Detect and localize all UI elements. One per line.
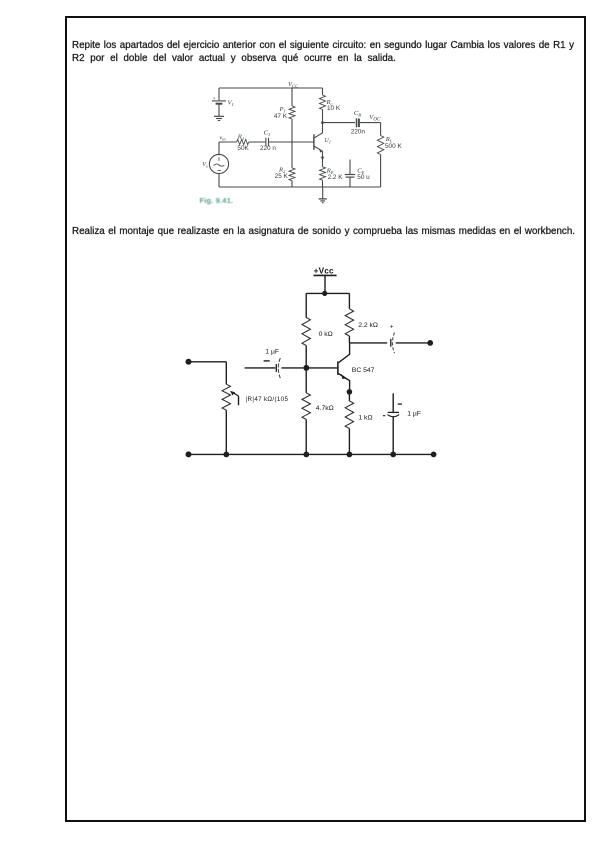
svg-text:4.7kΩ: 4.7kΩ [316, 405, 334, 412]
resistor Rc 10 K [320, 88, 341, 123]
resistor R2 2.2 kOhm [345, 293, 378, 343]
svg-text:U1: U1 [325, 138, 331, 144]
svg-text:+: + [213, 96, 216, 101]
node divider bottom [303, 452, 309, 458]
resistor R2 25 K [275, 142, 295, 187]
wire input line [245, 367, 276, 369]
svg-text:RL: RL [385, 136, 393, 144]
battery V1 [212, 88, 234, 116]
node pot bottom [223, 452, 229, 458]
node emitter junction [347, 389, 353, 395]
svg-text:25 K: 25 K [275, 173, 289, 180]
node VOC label [369, 114, 381, 123]
wire input terminal to pot [189, 361, 227, 363]
svg-text:2.2 K: 2.2 K [328, 174, 344, 181]
svg-text:CB: CB [354, 110, 361, 118]
svg-text:V1: V1 [228, 100, 234, 108]
transistor U1 [314, 123, 331, 167]
svg-text:1 µF: 1 µF [407, 410, 421, 417]
wire Vin to R1 [219, 141, 237, 143]
svg-text:P1: P1 [278, 106, 285, 114]
svg-text:1 µF: 1 µF [265, 348, 279, 355]
svg-text:10 K: 10 K [327, 105, 341, 112]
svg-text:|R|47 kΩ/(105: |R|47 kΩ/(105 [246, 396, 289, 403]
svg-text:47 K: 47 K [274, 113, 288, 120]
terminal bottom-right [431, 452, 437, 458]
wire bottom rail [189, 453, 434, 455]
wire base line [306, 367, 337, 369]
svg-text:0 kΩ: 0 kΩ [319, 331, 333, 338]
capacitor CE 50 u [345, 160, 370, 188]
resistor R4 1 kOhm [345, 392, 372, 455]
svg-text:Vs: Vs [202, 161, 208, 169]
node collector junction [321, 121, 324, 124]
capacitor emitter bypass 1 uF [383, 393, 421, 454]
caption Fig 9.41 [200, 196, 234, 205]
potentiometer 47 kOhm [222, 362, 288, 455]
terminal input top-left [186, 359, 192, 365]
resistor P1 47 K [274, 88, 295, 142]
wire Vs to bottom rail [218, 174, 220, 187]
source Vs [202, 154, 228, 173]
capacitor C1 220 n [260, 129, 276, 152]
node emitter resistor bottom [347, 452, 353, 458]
wire bottom rail [219, 186, 381, 188]
svg-text:C1: C1 [264, 129, 271, 137]
wire collector to CB [323, 122, 356, 124]
wire collector output [349, 342, 387, 344]
capacitor input 1 uF [264, 348, 281, 378]
svg-text:50 u: 50 u [357, 174, 370, 181]
node capacitor bottom [390, 452, 396, 458]
wire CB to VOC [360, 122, 381, 124]
node VCC label [288, 81, 299, 89]
resistor RL 500 K [377, 123, 402, 187]
node base junction [303, 365, 309, 371]
svg-text:VCC: VCC [288, 81, 299, 89]
paragraph 1 line 2 [72, 53, 396, 64]
svg-text:220 n: 220 n [260, 145, 276, 152]
resistor R1 0 kOhm [302, 293, 333, 368]
svg-text:BC 547: BC 547 [352, 367, 375, 374]
svg-text:220n: 220n [351, 129, 366, 136]
power +Vcc [314, 266, 337, 293]
svg-text:+: + [390, 323, 394, 330]
ground (battery V1) [214, 116, 224, 120]
ground (main) [319, 187, 327, 203]
resistor R3 4.7 kOhm [302, 368, 334, 455]
capacitor output coupling [390, 323, 395, 353]
wire cap to output terminal [396, 342, 431, 344]
node top junction [322, 291, 327, 296]
svg-text:2.2 kΩ: 2.2 kΩ [358, 322, 378, 329]
wire cap to base node [281, 367, 303, 369]
wire R1 to C1 [249, 141, 266, 143]
resistor RE 2.2 K [320, 167, 344, 187]
svg-text:vin: vin [220, 135, 227, 141]
wire top VCC rail [219, 87, 323, 89]
svg-text:VOC: VOC [369, 114, 381, 123]
svg-text:R1: R1 [237, 134, 244, 142]
paragraph 2 [72, 226, 575, 237]
terminal output [427, 340, 433, 346]
node Vin [219, 135, 226, 155]
wire top rail [306, 292, 349, 294]
resistor R1 50K [237, 134, 250, 152]
terminal bottom-left [186, 451, 192, 457]
svg-text:1 kΩ: 1 kΩ [358, 415, 372, 422]
capacitor CB 220n [351, 110, 366, 136]
svg-text:50K: 50K [237, 145, 249, 152]
svg-text:+Vcc: +Vcc [314, 266, 334, 275]
svg-text:500 K: 500 K [385, 143, 402, 150]
transistor Q1 BC 547 [338, 343, 375, 392]
wire C1 to base [269, 141, 314, 143]
paragraph 1 line 1 [72, 40, 574, 51]
